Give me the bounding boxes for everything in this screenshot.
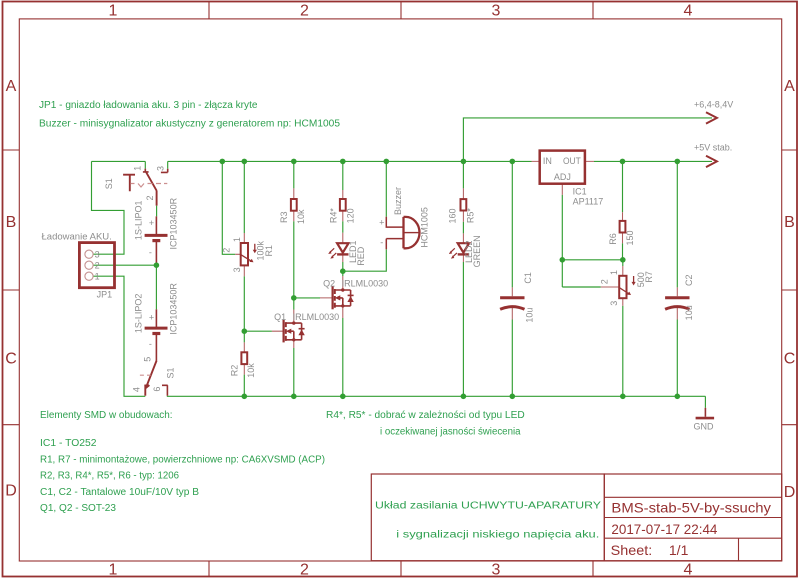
svg-text:Q1, Q2 - SOT-23: Q1, Q2 - SOT-23	[40, 503, 116, 514]
resistor R2	[230, 342, 257, 377]
wire R1 column	[243, 161, 245, 396]
svg-text:10k: 10k	[296, 209, 306, 224]
junction at 156.4,265.2	[154, 262, 160, 268]
svg-text:4: 4	[684, 562, 693, 579]
capacitor C2	[665, 274, 694, 320]
svg-text:+: +	[379, 217, 384, 227]
svg-text:JP1 - gniazdo ładowania aku. 3: JP1 - gniazdo ładowania aku. 3 pin - złą…	[39, 100, 258, 111]
junction at 622.5,161.4	[620, 159, 626, 165]
junction at 512.3,161.4	[510, 159, 516, 165]
junction at 463.4,396.3	[461, 394, 467, 400]
svg-text:R7: R7	[644, 271, 654, 283]
wire JP1 pin3 to rail	[92, 161, 125, 254]
wire branch to R1 pin2	[222, 161, 235, 254]
svg-text:2: 2	[221, 248, 231, 253]
svg-text:1: 1	[95, 271, 100, 281]
power arrow +5V stab.	[694, 143, 732, 168]
svg-text:2: 2	[300, 562, 309, 579]
LED2 GREEN	[449, 233, 482, 267]
svg-text:IC1 - TO252: IC1 - TO252	[40, 438, 97, 449]
svg-text:IRLML0030: IRLML0030	[293, 312, 340, 322]
svg-text:3: 3	[156, 166, 166, 171]
buzzer HCM1005	[379, 187, 429, 249]
wire R6 R7 column	[622, 161, 624, 396]
svg-text:-: -	[149, 339, 152, 349]
transistor Q2	[320, 276, 388, 318]
svg-text:3: 3	[609, 301, 619, 306]
wire buzzer plus	[385, 161, 387, 216]
svg-text:OUT: OUT	[563, 156, 581, 166]
junction at 244.3,161.4	[242, 159, 248, 165]
svg-text:GND: GND	[694, 422, 715, 432]
wire JP1 pin1 to switch pin4	[93, 276, 145, 396]
svg-text:150: 150	[625, 230, 635, 245]
svg-text:Sheet:: Sheet:	[611, 542, 653, 558]
junction at 293.8,396.3	[291, 394, 297, 400]
svg-text:R1: R1	[264, 245, 274, 257]
svg-text:JP1: JP1	[97, 289, 113, 299]
svg-text:R2, R3, R4*, R5*, R6 - typ: 12: R2, R3, R4*, R5*, R6 - typ: 1206	[40, 471, 179, 482]
wire +5V rail	[594, 160, 712, 162]
resistor R5*	[447, 188, 475, 223]
svg-text:BMS-stab-5V-by-ssuchy: BMS-stab-5V-by-ssuchy	[611, 500, 771, 516]
svg-text:R3: R3	[279, 212, 289, 224]
LED1 RED	[328, 233, 366, 266]
svg-text:160: 160	[447, 208, 457, 223]
resistor R3	[279, 188, 306, 224]
battery 1S-LIPO1	[133, 197, 178, 262]
svg-text:IRLML0030: IRLML0030	[342, 279, 389, 289]
svg-text:4: 4	[132, 387, 142, 392]
svg-text:1: 1	[109, 2, 118, 19]
wire R3 column	[293, 161, 295, 396]
svg-text:C: C	[5, 350, 17, 367]
svg-text:1: 1	[232, 237, 242, 242]
svg-text:ADJ: ADJ	[554, 172, 571, 182]
svg-text:C: C	[784, 350, 796, 367]
svg-text:RED: RED	[356, 246, 366, 266]
junction at 342.8,271.2	[340, 268, 346, 274]
junction at 677.3,161.4	[675, 159, 681, 165]
svg-text:Buzzer - minisygnalizator akus: Buzzer - minisygnalizator akustyczny z g…	[39, 118, 340, 129]
svg-text:2: 2	[599, 279, 609, 284]
switch S1 top section	[104, 161, 168, 205]
svg-text:1/1: 1/1	[669, 542, 689, 558]
svg-text:120: 120	[345, 208, 355, 223]
junction at 622.8,259.8	[620, 257, 626, 263]
junction at 342.8,161.4	[340, 159, 346, 165]
svg-text:C1: C1	[523, 272, 533, 284]
svg-text:S1: S1	[166, 367, 176, 378]
svg-text:S1: S1	[104, 178, 114, 189]
svg-text:C1, C2 - Tantalowe 10uF/10V ty: C1, C2 - Tantalowe 10uF/10V typ B	[40, 487, 199, 498]
svg-text:10u: 10u	[525, 308, 535, 323]
svg-text:Q1: Q1	[274, 312, 286, 322]
junction at 463.4,161.4	[461, 159, 467, 165]
svg-text:2: 2	[95, 260, 100, 270]
wire battery column	[155, 206, 157, 310]
wire JP1 pin2 to battery	[93, 264, 156, 266]
svg-text:+6,4-8,4V: +6,4-8,4V	[694, 100, 733, 110]
svg-text:1S-LIPO2: 1S-LIPO2	[133, 294, 143, 334]
svg-text:Ładowanie AKU.: Ładowanie AKU.	[42, 231, 112, 241]
svg-text:R5*: R5*	[466, 208, 476, 224]
svg-text:3: 3	[95, 249, 100, 259]
svg-text:1: 1	[609, 270, 619, 275]
regulator IC1 AP1117	[532, 151, 604, 207]
svg-text:-: -	[149, 247, 152, 257]
wire R4 LED1 Q2 column	[342, 161, 344, 396]
junction at 512.3,396.3	[510, 394, 516, 400]
svg-text:A: A	[6, 78, 17, 95]
battery 1S-LIPO2	[133, 283, 178, 361]
svg-text:R1, R7 - minimontażowe, powier: R1, R7 - minimontażowe, powierzchniowe n…	[40, 454, 325, 465]
svg-text:D: D	[784, 484, 796, 501]
title block	[371, 474, 781, 561]
svg-text:3: 3	[492, 2, 501, 19]
wire left rail to switch	[92, 160, 146, 162]
wire bottom rail	[167, 395, 706, 397]
svg-text:+: +	[149, 218, 154, 228]
junction at 677.3,396.3	[675, 394, 681, 400]
svg-text:i sygnalizacji niskiego napięc: i sygnalizacji niskiego napięcia aku.	[396, 530, 599, 541]
svg-text:Q2: Q2	[323, 279, 335, 289]
svg-text:1: 1	[132, 166, 142, 171]
wire +6,4V branch	[463, 118, 712, 161]
potentiometer R7	[599, 266, 654, 306]
transistor Q1	[272, 310, 339, 349]
svg-text:Elementy SMD w obudowach:: Elementy SMD w obudowach:	[40, 410, 173, 421]
junction at 342.8,396.3	[340, 394, 346, 400]
svg-text:3: 3	[492, 562, 501, 579]
svg-text:IC1: IC1	[573, 186, 587, 196]
power arrow +6,4-8,4V	[694, 100, 733, 124]
svg-text:10u: 10u	[684, 305, 694, 320]
svg-text:3: 3	[232, 267, 242, 272]
svg-text:1: 1	[109, 562, 118, 579]
capacitor C1	[500, 272, 534, 322]
junction at 222.3,161.4	[220, 159, 226, 165]
svg-text:A: A	[784, 78, 795, 95]
connector JP1	[42, 231, 115, 299]
svg-text:10k: 10k	[246, 363, 256, 378]
svg-text:AP1117: AP1117	[573, 197, 604, 207]
svg-text:+5V stab.: +5V stab.	[694, 143, 732, 153]
junction at 293.8,297.9	[291, 295, 297, 301]
svg-text:i oczekiwanej jasności świecen: i oczekiwanej jasności świecenia	[380, 427, 521, 438]
svg-text:ICP103450R: ICP103450R	[169, 283, 179, 335]
ground	[694, 408, 715, 432]
resistor R6	[608, 212, 635, 245]
svg-text:2: 2	[145, 195, 155, 200]
potentiometer R1	[221, 233, 274, 276]
svg-text:R4*, R5* - dobrać w zależności: R4*, R5* - dobrać w zależności od typu L…	[326, 410, 525, 421]
svg-text:IN: IN	[543, 156, 552, 166]
svg-text:+: +	[149, 312, 154, 322]
wire Q1 gate	[244, 330, 272, 332]
svg-text:B: B	[6, 214, 17, 231]
wire ADJ node	[562, 195, 623, 287]
svg-text:ICP103450R: ICP103450R	[169, 197, 179, 249]
wire GND drop	[704, 396, 706, 408]
resistor R4*	[328, 190, 355, 223]
wire C2 column	[676, 161, 678, 396]
svg-text:-: -	[380, 238, 383, 248]
svg-text:Układ zasilania UCHWYTU-APARAT: Układ zasilania UCHWYTU-APARATURY	[375, 501, 601, 512]
svg-text:D: D	[5, 483, 17, 500]
svg-text:1S-LIPO1: 1S-LIPO1	[133, 201, 143, 241]
wire Q2 gate	[294, 297, 320, 299]
svg-text:B: B	[784, 214, 795, 231]
wire C1 column	[511, 161, 513, 396]
junction at 293.8,161.4	[291, 159, 297, 165]
note LED annotation	[326, 410, 525, 438]
svg-text:GREEN: GREEN	[472, 235, 482, 267]
svg-text:R4*: R4*	[328, 208, 338, 224]
svg-text:2: 2	[300, 2, 309, 19]
junction at 386.3,161.4	[384, 159, 390, 165]
svg-text:6: 6	[152, 387, 162, 392]
switch S1 bottom section	[132, 357, 176, 396]
svg-text:R6: R6	[608, 233, 618, 245]
svg-text:Buzzer: Buzzer	[393, 187, 403, 215]
svg-text:R2: R2	[230, 365, 240, 377]
wire buzzer minus	[343, 249, 387, 271]
junction at 622.8,396.3	[620, 394, 626, 400]
svg-text:4: 4	[684, 2, 693, 19]
note SMD list	[40, 410, 325, 514]
svg-text:C2: C2	[684, 274, 694, 286]
wire LED2 column	[462, 161, 464, 396]
svg-text:HCM1005: HCM1005	[420, 207, 430, 248]
svg-text:2017-07-17 22:44: 2017-07-17 22:44	[611, 521, 717, 537]
wire top rail	[168, 160, 532, 162]
svg-text:5: 5	[142, 357, 152, 362]
junction at 562.3,259.8	[560, 257, 566, 263]
junction at 244.3,331.2	[242, 328, 248, 334]
junction at 244.3,396.3	[242, 394, 248, 400]
